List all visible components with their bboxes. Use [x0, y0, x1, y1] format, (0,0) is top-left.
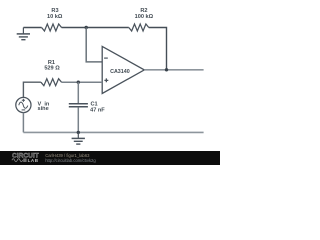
svg-text:100 kΩ: 100 kΩ	[135, 14, 154, 20]
CircuitLab logo wave	[12, 159, 23, 162]
node C junction dot (rail/ground)	[77, 131, 80, 134]
node B junction dot (R1/C1)	[77, 81, 80, 84]
wire node B down to C1	[77, 82, 79, 103]
wire V_in bottom to rail	[22, 113, 24, 133]
watermark bar	[0, 151, 220, 165]
wire R2 to output corner	[149, 28, 167, 70]
voltage source V1 V_in sine	[16, 97, 50, 112]
node A junction dot	[85, 26, 88, 29]
svg-text:10 kΩ: 10 kΩ	[47, 14, 63, 20]
wire op-amp output	[144, 69, 203, 71]
svg-text:http://circuitlab.com/c5vk2g: http://circuitlab.com/c5vk2g	[45, 158, 96, 163]
op-amp U1 CA3140	[102, 46, 144, 93]
svg-text:sine: sine	[38, 106, 49, 112]
capacitor C1	[69, 102, 105, 114]
wire node A down to inverting input	[86, 28, 102, 62]
svg-text:47 nF: 47 nF	[90, 108, 105, 114]
resistor R3	[42, 8, 63, 31]
wire ground to R3	[23, 27, 41, 29]
wire bottom rail	[23, 131, 203, 133]
resistor R1	[41, 60, 62, 86]
wire V_in top to R1	[23, 82, 41, 97]
wire C1 to bottom rail	[77, 107, 79, 132]
ground GND2 (bottom)	[72, 132, 85, 144]
wire R3 to R2 (node A run)	[62, 27, 129, 29]
ground GND1 (top left)	[17, 28, 30, 40]
CircuitLab logo LAB	[23, 158, 26, 162]
svg-text:529 Ω: 529 Ω	[44, 65, 60, 71]
resistor R2	[129, 8, 154, 31]
svg-text:LAB: LAB	[28, 158, 39, 163]
svg-text:CA3140: CA3140	[110, 69, 130, 75]
wire R1 to non-inverting input	[62, 81, 103, 83]
node output junction dot	[165, 68, 168, 71]
